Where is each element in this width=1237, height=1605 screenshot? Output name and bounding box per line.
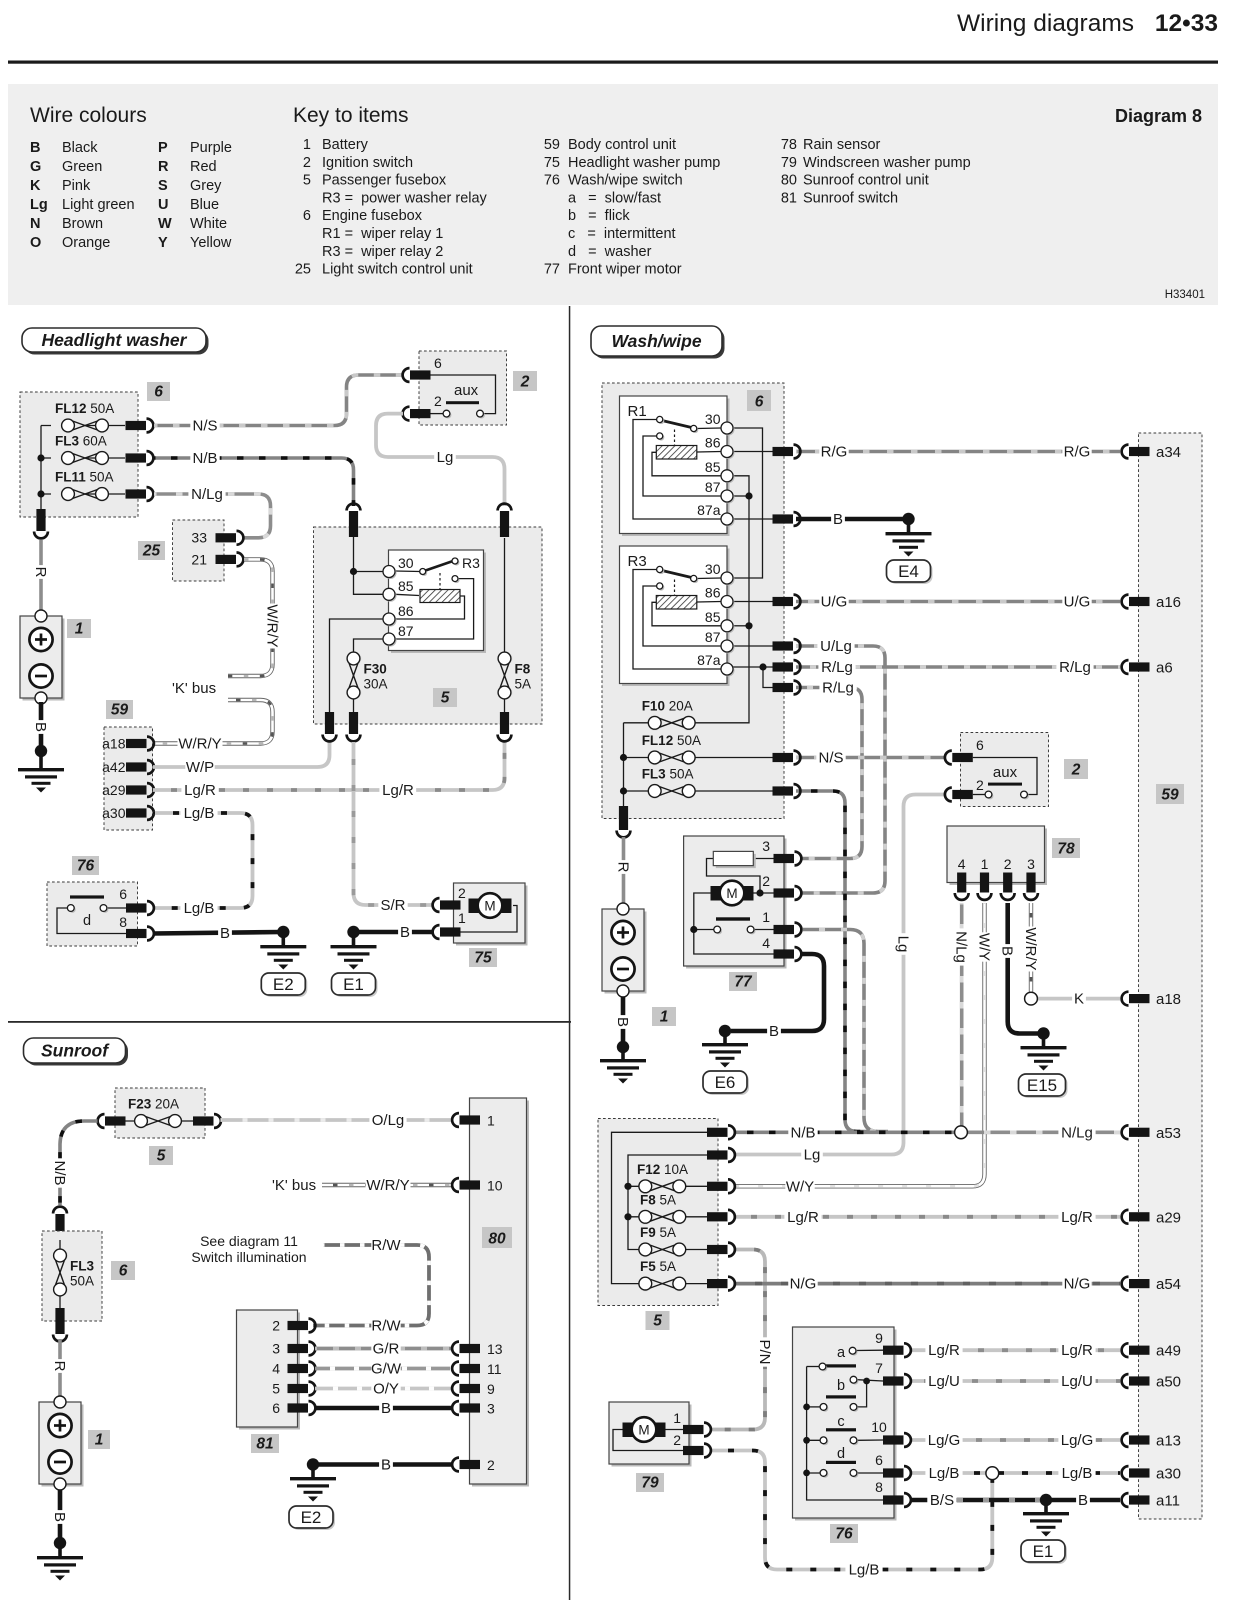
- svg-text:87a: 87a: [697, 652, 721, 668]
- relay R3 pin 85: [385, 590, 397, 602]
- svg-text:13: 13: [487, 1341, 503, 1357]
- pin 9 (unit 80): [460, 1384, 481, 1393]
- fusebox bus wire: [40, 426, 42, 510]
- svg-text:59: 59: [111, 702, 129, 719]
- engine fusebox 6 (dashed box): [20, 392, 138, 517]
- connector switch 81 pin 6: [288, 1403, 309, 1412]
- svg-text:FL12 50A: FL12 50A: [642, 733, 701, 748]
- svg-text:6: 6: [976, 737, 984, 753]
- wire R/Lg relay R3 87a to a6: [796, 665, 1120, 669]
- svg-text:R: R: [615, 862, 632, 873]
- label 2: [513, 371, 537, 391]
- connector rain sensor pin 2: [1003, 873, 1012, 893]
- label 59: [1156, 784, 1184, 804]
- connector (fusebox N/Lg output): [126, 489, 147, 498]
- label 76: [830, 1524, 858, 1543]
- svg-text:B: B: [400, 924, 410, 941]
- wire B battery to ground: [39, 702, 44, 749]
- svg-text:30: 30: [398, 555, 414, 571]
- headlight washer pump 75: [456, 886, 528, 946]
- svg-text:Headlight washer pump: Headlight washer pump: [568, 155, 720, 171]
- svg-text:B: B: [1078, 1492, 1088, 1509]
- svg-text:O/Y: O/Y: [373, 1381, 399, 1398]
- svg-text:W/R/Y: W/R/Y: [366, 1177, 409, 1194]
- connector aux pin 6: [952, 753, 973, 762]
- svg-text:80: 80: [781, 173, 797, 189]
- relay R3 second contact: [395, 579, 474, 639]
- svg-text:B: B: [614, 1017, 631, 1027]
- svg-text:F12 10A: F12 10A: [637, 1162, 688, 1177]
- connector fusebox 5 (Lg/R out): [707, 1212, 728, 1221]
- relay R3 pin 85: [723, 621, 735, 633]
- svg-text:a50: a50: [1156, 1374, 1181, 1391]
- svg-text:Lg/G: Lg/G: [1061, 1432, 1094, 1449]
- relay R3 pin 87: [723, 642, 735, 654]
- svg-text:FL3 50A: FL3 50A: [642, 767, 694, 782]
- connector switch 76 pin 7: [883, 1376, 904, 1385]
- fuse F8 5A: [504, 538, 506, 652]
- aux switch bar: [988, 783, 1022, 786]
- svg-text:'K' bus: 'K' bus: [272, 1177, 316, 1194]
- aux contact circle: [1022, 793, 1029, 800]
- pin 1 (unit 80): [460, 1115, 481, 1124]
- svg-text:a34: a34: [1156, 444, 1181, 461]
- svg-text:Wire colours: Wire colours: [30, 104, 147, 127]
- svg-text:G/R: G/R: [373, 1341, 400, 1358]
- relay R3 pin 87: [385, 635, 397, 647]
- connector switch 76 pin 10: [883, 1435, 904, 1444]
- svg-text:Green: Green: [62, 159, 102, 175]
- svg-text:1: 1: [303, 137, 311, 153]
- fuse FL12 50A: [648, 753, 661, 766]
- ground symbol E6: [702, 1043, 748, 1046]
- fusebox 5 internal bus wiring: [612, 1132, 708, 1283]
- connector a30: [126, 808, 147, 817]
- pin 10 (unit 80): [460, 1180, 481, 1189]
- svg-text:Lg/R: Lg/R: [1061, 1342, 1093, 1359]
- label 1: [67, 619, 91, 638]
- svg-text:R/G: R/G: [821, 444, 848, 461]
- wire G/R switch 81 to unit 80 pin 13: [315, 1347, 453, 1351]
- wire N/B engine fusebox down to body control unit feed: [796, 791, 875, 1132]
- svg-text:M: M: [484, 899, 495, 914]
- fuse F12 10A: [639, 1181, 652, 1194]
- connector a29: [126, 785, 147, 794]
- svg-text:N/Lg: N/Lg: [191, 486, 223, 503]
- wiper 77 resistor loop wiring: [707, 859, 774, 894]
- svg-text:4: 4: [272, 1361, 280, 1377]
- svg-text:77: 77: [734, 974, 753, 991]
- svg-text:a29: a29: [102, 782, 126, 798]
- svg-text:R3: R3: [462, 555, 480, 571]
- wire B earth E2 to unit 80 pin 2: [313, 1462, 453, 1467]
- relay R1 pin 85: [723, 471, 735, 483]
- relay R3 coil: [395, 594, 465, 619]
- wire B rain sensor pin 2 to earth E15: [1008, 903, 1041, 1034]
- svg-text:R3 = power washer relay: R3 = power washer relay: [322, 190, 488, 206]
- svg-text:Red: Red: [190, 159, 217, 175]
- ground dot: [54, 1537, 66, 1549]
- wire B relay R1 87a to earth E4: [796, 517, 906, 522]
- wash/wipe switch 76: [795, 1330, 897, 1521]
- wire Lg/U wash/wipe switch 7 to a50: [910, 1379, 1120, 1383]
- svg-text:Lg/B: Lg/B: [929, 1465, 960, 1482]
- svg-text:Lg: Lg: [895, 936, 912, 953]
- svg-text:1: 1: [487, 1113, 495, 1129]
- connector switch 76 pin 6: [883, 1468, 904, 1477]
- svg-text:a53: a53: [1156, 1125, 1181, 1142]
- relay R3 pin 30: [723, 574, 735, 586]
- svg-text:a30: a30: [102, 805, 126, 821]
- svg-text:N/S: N/S: [192, 418, 217, 435]
- svg-text:6: 6: [875, 1452, 883, 1468]
- svg-text:P/N: P/N: [756, 1339, 773, 1364]
- svg-text:FL12 50A: FL12 50A: [55, 401, 114, 416]
- svg-text:N/Lg: N/Lg: [953, 931, 970, 963]
- svg-text:N: N: [30, 216, 40, 232]
- svg-text:R/Lg: R/Lg: [822, 680, 854, 697]
- svg-text:2: 2: [272, 1318, 280, 1334]
- svg-text:U/G: U/G: [1064, 594, 1091, 611]
- pin 13 (unit 80): [460, 1344, 481, 1353]
- connector aux pin 2: [952, 790, 973, 799]
- svg-text:B: B: [381, 1400, 391, 1417]
- connector pump pin 1: [440, 927, 461, 936]
- junction R1 87: [745, 492, 752, 499]
- light switch control unit 25 (dashed box): [173, 520, 225, 581]
- switch 76 contact a bar: [826, 1364, 856, 1367]
- junction: [37, 490, 44, 497]
- connector switch 76 pin 8: [883, 1495, 904, 1504]
- svg-text:N/B: N/B: [51, 1160, 68, 1185]
- svg-text:d: d: [837, 1446, 845, 1462]
- junction circle N/B / N/Lg: [955, 1126, 968, 1139]
- svg-text:E4: E4: [898, 562, 919, 581]
- wire Lg/R passenger fusebox F8 to a29: [734, 1215, 1120, 1219]
- connector a18: [126, 739, 147, 748]
- label 75: [469, 948, 497, 967]
- svg-text:Lg: Lg: [30, 197, 48, 213]
- svg-text:77: 77: [544, 262, 560, 278]
- relay R1 pin 30: [723, 424, 735, 436]
- ground dot E4: [902, 513, 914, 525]
- connector pin 6: [126, 903, 147, 912]
- relay R3 87a to connectors R/Lg: [733, 667, 773, 688]
- ground dot E6: [719, 1025, 731, 1037]
- ground symbol (sunroof battery earth): [37, 1556, 83, 1559]
- relay R1 pin 87: [723, 492, 735, 504]
- svg-text:d = washer: d = washer: [568, 244, 652, 260]
- svg-text:R/G: R/G: [1064, 444, 1091, 461]
- wire N/S engine fusebox to aux switch pin 6: [796, 756, 944, 760]
- pin 3 (unit 80): [460, 1403, 481, 1412]
- svg-text:F8: F8: [515, 662, 531, 677]
- svg-text:W/P: W/P: [186, 759, 214, 776]
- svg-text:59: 59: [544, 137, 560, 153]
- fuse F10 20A: [648, 718, 661, 731]
- passenger fusebox 5 (dashed box, sunroof): [115, 1088, 205, 1138]
- svg-text:c = intermittent: c = intermittent: [568, 226, 676, 242]
- fuse FL3 50A: [648, 786, 661, 799]
- earth label E1 (right): [1023, 1542, 1067, 1564]
- aux switch internal wiring: [973, 758, 1037, 795]
- svg-text:3: 3: [272, 1341, 280, 1357]
- svg-text:R/W: R/W: [371, 1318, 401, 1335]
- relay R3 coil: [652, 602, 721, 626]
- svg-text:4: 4: [958, 856, 966, 872]
- svg-text:25: 25: [142, 543, 161, 560]
- wire B/S wash/wipe switch 8 to earth junction: [910, 1498, 1043, 1503]
- junction FL12: [620, 754, 627, 761]
- connector engine fusebox top: [55, 1214, 64, 1240]
- svg-text:B: B: [833, 511, 843, 528]
- svg-text:5: 5: [653, 1313, 662, 1330]
- relay R1 switch common wiring: [633, 420, 721, 520]
- svg-text:a6: a6: [1156, 660, 1173, 677]
- relay R1 second contact wiring: [643, 436, 721, 496]
- ground dot E1: [347, 926, 359, 938]
- ground symbol E4: [886, 532, 932, 535]
- wire R/Lg relay R3 87a to wiper motor pin 3: [796, 688, 862, 859]
- connector pump 79 pin 2: [683, 1446, 704, 1455]
- ground symbol E1: [331, 945, 377, 948]
- svg-text:B: B: [51, 1512, 68, 1522]
- junction (wiper common): [690, 926, 697, 933]
- svg-text:85: 85: [705, 459, 721, 475]
- label 2: [1064, 759, 1088, 779]
- relay R1 switch blade: [662, 421, 692, 428]
- svg-text:Headlight washer: Headlight washer: [42, 330, 188, 350]
- svg-text:R1 = wiper relay 1: R1 = wiper relay 1: [322, 226, 443, 242]
- svg-text:F5 5A: F5 5A: [640, 1259, 676, 1274]
- switch 76 contact b bar: [826, 1395, 856, 1398]
- connector rain sensor pin 4: [957, 873, 966, 893]
- wire B battery to ground: [58, 1490, 63, 1541]
- switch 76 bus wiring: [807, 1367, 883, 1501]
- connector rain sensor pin 1: [980, 873, 989, 893]
- svg-text:O: O: [30, 235, 41, 251]
- svg-text:Passenger fusebox: Passenger fusebox: [322, 173, 447, 189]
- svg-text:Lg/U: Lg/U: [1061, 1373, 1093, 1390]
- svg-text:81: 81: [256, 1436, 273, 1453]
- svg-text:5: 5: [157, 1148, 166, 1165]
- label 80: [482, 1227, 512, 1248]
- ground symbol (right battery earth): [600, 1059, 646, 1062]
- svg-text:R3 = wiper relay 2: R3 = wiper relay 2: [322, 244, 443, 260]
- connector a54: [1129, 1279, 1150, 1288]
- svg-text:a13: a13: [1156, 1433, 1181, 1450]
- section label: Headlight washer: [25, 331, 209, 355]
- ground dot E1 (right): [1040, 1494, 1052, 1506]
- ignition switch aux box 2 (dashed, right): [961, 733, 1049, 807]
- relay R3 87 to connector: [733, 645, 773, 647]
- svg-text:78: 78: [781, 137, 797, 153]
- svg-text:5A: 5A: [515, 677, 532, 692]
- svg-text:3: 3: [487, 1401, 495, 1417]
- wire Lg/B a30 to wash/wipe switch 76: [153, 813, 253, 908]
- wire B washer pump to earth E1: [356, 930, 434, 935]
- connector fusebox 5 top right (Lg in): [500, 511, 509, 537]
- svg-text:Lg/R: Lg/R: [184, 782, 216, 799]
- wire N/Lg junction to a53: [961, 1131, 1120, 1135]
- svg-text:c: c: [837, 1414, 844, 1430]
- svg-text:2: 2: [520, 374, 530, 391]
- relay R3 pin 87a: [723, 665, 735, 677]
- svg-text:Lg/G: Lg/G: [928, 1432, 961, 1449]
- wire W/P a42 to fusebox 5: [153, 741, 330, 767]
- header rule: [8, 61, 1218, 64]
- svg-text:Pink: Pink: [62, 178, 91, 194]
- wire W/R/Y from pin 21 to 'K' bus stub: [228, 559, 273, 676]
- aux internal wiring: [431, 375, 496, 414]
- svg-text:S: S: [158, 178, 168, 194]
- connector pin 33: [216, 533, 237, 542]
- passenger fusebox 5 (dashed box, right): [598, 1119, 718, 1306]
- svg-text:F8 5A: F8 5A: [640, 1192, 676, 1207]
- relay R3 coil dashed link: [674, 580, 676, 596]
- svg-text:6: 6: [755, 394, 764, 411]
- svg-text:8: 8: [875, 1479, 883, 1495]
- relay R3 pin 30: [385, 567, 397, 579]
- connector pump 79 pin 1: [683, 1425, 704, 1434]
- svg-text:Blue: Blue: [190, 197, 219, 213]
- wire N/G passenger fusebox F5 to a54: [734, 1282, 1120, 1286]
- svg-text:21: 21: [191, 552, 207, 568]
- label 59: [106, 700, 133, 719]
- section label: Sunroof: [26, 1041, 128, 1066]
- fuse FL3 50A (vertical): [59, 1240, 61, 1308]
- svg-text:Black: Black: [62, 140, 98, 156]
- connector a18: [1129, 994, 1150, 1003]
- wire O/Y switch 81 to unit 80 pin 9: [315, 1387, 453, 1391]
- relay R3 switch blade: [662, 571, 692, 578]
- svg-text:85: 85: [705, 609, 721, 625]
- svg-text:Lg/B: Lg/B: [1062, 1465, 1093, 1482]
- svg-text:Sunroof: Sunroof: [41, 1041, 110, 1061]
- label 5: [149, 1146, 173, 1165]
- relay R1 feed link wire: [733, 428, 763, 578]
- wire (wiper motor pin 1) down to N/B row: [800, 930, 888, 1132]
- wiper 77 pin 2 wiring: [754, 892, 774, 894]
- svg-text:87: 87: [398, 623, 414, 639]
- svg-text:Lg/R: Lg/R: [382, 782, 414, 799]
- ground symbol E2: [260, 945, 306, 948]
- switch d internal wiring: [57, 908, 131, 934]
- wire Lg aux to fuse F8: [376, 414, 505, 506]
- pin 2 (unit 80): [460, 1460, 481, 1469]
- svg-text:Light switch control unit: Light switch control unit: [322, 262, 473, 278]
- body control unit 59 (dashed box): [104, 727, 153, 830]
- switch 76 contact b: [857, 1380, 883, 1407]
- svg-text:Purple: Purple: [190, 140, 232, 156]
- connector switch 81 pin 3: [288, 1344, 309, 1353]
- sunroof control unit 80: [472, 1101, 529, 1487]
- svg-text:2: 2: [673, 1432, 681, 1448]
- wire G/W switch 81 to unit 80 pin 11: [315, 1367, 453, 1371]
- wiper 77 motor M: [711, 886, 722, 901]
- connector wiper pin 3: [774, 854, 795, 863]
- svg-text:Diagram 8: Diagram 8: [1115, 106, 1202, 126]
- svg-text:E2: E2: [301, 1508, 322, 1527]
- svg-text:R3: R3: [628, 553, 647, 570]
- svg-text:Y: Y: [158, 235, 168, 251]
- svg-text:Engine fusebox: Engine fusebox: [322, 208, 423, 224]
- ground dot: [35, 745, 47, 757]
- svg-text:75: 75: [474, 950, 492, 967]
- connector a50: [1129, 1376, 1150, 1385]
- svg-text:10: 10: [871, 1419, 887, 1435]
- svg-text:2: 2: [487, 1457, 495, 1473]
- wire R engine fusebox to battery (right): [622, 837, 626, 903]
- relay R3 second contact wiring: [643, 586, 721, 646]
- wire Lg/G wash/wipe switch 10 to a13: [910, 1438, 1120, 1442]
- earth label E2 (sunroof): [291, 1508, 335, 1530]
- svg-text:E1: E1: [343, 975, 364, 994]
- earth label E2: [263, 975, 307, 997]
- svg-text:2: 2: [1004, 856, 1012, 872]
- svg-text:78: 78: [1057, 841, 1075, 858]
- svg-text:G/W: G/W: [371, 1361, 402, 1378]
- connector rain sensor pin 3: [1026, 873, 1035, 893]
- svg-text:Key to items: Key to items: [293, 104, 409, 127]
- svg-text:75: 75: [544, 155, 560, 171]
- earth label E4: [889, 562, 933, 584]
- wire Lg/R a29 to fuse F8: [153, 741, 505, 790]
- svg-text:76: 76: [77, 858, 95, 875]
- svg-text:W/R/Y: W/R/Y: [1022, 927, 1039, 970]
- svg-text:Lg/R: Lg/R: [1061, 1209, 1093, 1226]
- relay R1 pin 86: [723, 447, 735, 459]
- svg-text:G: G: [30, 159, 41, 175]
- svg-text:1: 1: [458, 910, 466, 926]
- wire 87 to fuse F30: [354, 639, 384, 652]
- pump 75 internal wire: [461, 906, 518, 933]
- switch d contact circle: [102, 906, 109, 913]
- svg-text:R: R: [51, 1361, 68, 1372]
- wire B switch 76 to earth E2: [153, 932, 281, 934]
- svg-text:Wash/wipe switch: Wash/wipe switch: [568, 173, 683, 189]
- svg-text:See diagram 11: See diagram 11: [200, 1233, 298, 1249]
- passenger fusebox 5 (dashed box): [314, 527, 543, 724]
- svg-text:Yellow: Yellow: [190, 235, 232, 251]
- svg-text:Sunroof control unit: Sunroof control unit: [803, 173, 929, 189]
- svg-text:R/Lg: R/Lg: [1059, 659, 1091, 676]
- connector switch 76 pin 9: [883, 1346, 904, 1355]
- rain sensor 78: [950, 829, 1048, 886]
- svg-text:12•33: 12•33: [1155, 10, 1218, 37]
- svg-text:O/Lg: O/Lg: [372, 1112, 405, 1129]
- relay R3 switch blade: [395, 570, 420, 573]
- svg-text:R1: R1: [628, 403, 647, 420]
- ground dot (right battery): [617, 1041, 629, 1053]
- connector F23 right: [193, 1116, 214, 1125]
- wash/wipe switch 76 (dashed box): [47, 882, 138, 946]
- svg-text:6: 6: [119, 1263, 128, 1280]
- svg-text:aux: aux: [993, 764, 1018, 781]
- relay R1 coil dashed link: [674, 430, 676, 446]
- svg-text:4: 4: [762, 935, 770, 951]
- svg-text:FL11 50A: FL11 50A: [55, 470, 114, 485]
- pin 11 (unit 80): [460, 1364, 481, 1373]
- connector pump pin 2: [440, 900, 461, 909]
- wire B battery to ground (right): [621, 997, 626, 1045]
- svg-text:b = flick: b = flick: [568, 208, 630, 224]
- svg-text:5: 5: [272, 1381, 280, 1397]
- connector F23 left: [105, 1116, 126, 1125]
- svg-text:1: 1: [673, 1410, 681, 1426]
- svg-text:85: 85: [398, 578, 414, 594]
- front wiper motor 77: [686, 839, 786, 969]
